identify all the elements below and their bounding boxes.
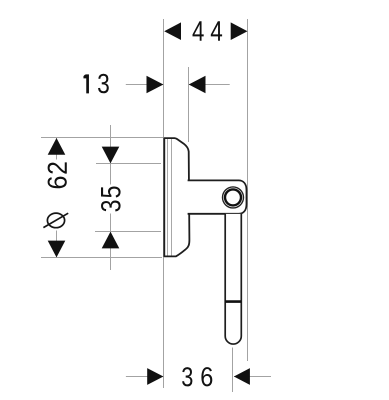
arrow 62 bottom (48, 241, 66, 258)
extension line left (wall plane, x=163.3) (163, 19, 165, 388)
knob outer circle (223, 187, 244, 208)
escutcheon inner profile line 1 (167, 139, 169, 256)
extension line 35 bottom (95, 231, 161, 233)
extension line right (x=247.9) (247, 19, 249, 361)
bar joint line (225, 300, 241, 303)
dimension text 13 digit 1 (83, 74, 89, 93)
escutcheon inner profile line 2 (171, 139, 173, 256)
leader 36 right (234, 376, 271, 378)
arrow 13 left (147, 76, 164, 94)
glyph diameter sign (43, 213, 68, 228)
extension line 62 top (41, 137, 163, 139)
dimension line 62 vertical (56, 138, 58, 257)
arrow 13 right (189, 76, 206, 94)
dimension text 44 (193, 21, 204, 41)
glyph 6 of 62 (48, 177, 67, 189)
holder arm (188, 180, 247, 213)
extension line 62 bottom (41, 257, 162, 259)
arrow 62 top (48, 138, 66, 155)
dimension text 36 (182, 367, 192, 386)
leader 36 left (126, 376, 163, 378)
knob inner ring (225, 189, 241, 205)
glyph 5 of 35 (101, 187, 121, 198)
dimension line 35 vertical (110, 125, 112, 270)
arrow 36 right (234, 368, 250, 385)
extension line 35 top (96, 163, 161, 165)
leader 13 left (126, 84, 163, 86)
escutcheon body (wall plate profile) (164, 138, 189, 256)
arrow 35 top (102, 147, 120, 164)
arrow 44 left (164, 22, 181, 40)
dimension text 13 digit 3 (98, 74, 109, 94)
arrow 36 left (147, 368, 163, 385)
extension line 13-right (dome face, x=188.7) (188, 67, 190, 142)
leader 13 right (189, 84, 230, 86)
hanging bar (225, 214, 241, 344)
extension line bar centerline (232, 348, 234, 393)
arrow 35 bottom (102, 232, 120, 249)
glyph 2 of 62 (48, 162, 67, 173)
dimension text diameter 62 (rotated): white gap on dim line (49, 160, 64, 231)
glyph 3 of 35 (101, 201, 121, 212)
dimension text 35 (rotated): white gap on dim line (104, 185, 118, 214)
arrow 44 right (231, 22, 248, 40)
